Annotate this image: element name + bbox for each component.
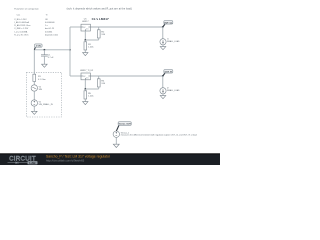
svg-text:http://circuitlab.com/c/9wtrh6: http://circuitlab.com/c/9wtrh65 [46, 158, 85, 162]
op-amp U2 LM317 TI box [81, 73, 90, 80]
wire V2 to V1 [33, 91, 35, 100]
node ADJ junction [84, 39, 86, 41]
voltage source V1 (DC) [31, 100, 37, 106]
svg-text:0.1 Ohm: 0.1 Ohm [38, 79, 46, 81]
svg-text:I_ADJ 0.0465uA: I_ADJ 0.0465uA [14, 21, 30, 24]
node C1 junction [44, 49, 46, 51]
node tag VIN [34, 44, 42, 50]
ground (I1) [162, 45, 164, 47]
svg-text:SMALL_LOAD: SMALL_LOAD [167, 40, 180, 43]
wire U2 output rail [90, 75, 162, 77]
svg-text:SMALL_LOAD: SMALL_LOAD [167, 89, 180, 92]
wire to current source I2 [162, 76, 164, 88]
svg-text:(sch: it depends which values: (sch: it depends which values and R_pot … [67, 8, 132, 11]
ground (C1) [42, 64, 48, 67]
node junction load 1 [162, 26, 164, 28]
svg-text:Parameter set comparison: Parameter set comparison [14, 8, 39, 11]
wire VIN rail [34, 49, 70, 51]
resistor R3 (source impedance) [33, 74, 36, 85]
wire U1 output rail [90, 26, 162, 28]
svg-text:R_ADJ 1181 Ohm: R_ADJ 1181 Ohm [14, 24, 30, 27]
svg-text:CL's LM317: CL's LM317 [92, 17, 109, 21]
resistor R1 (ADJ to ground) [84, 40, 87, 53]
svg-text:0.00334: 0.00334 [45, 31, 53, 33]
wire VIN down to source chain [33, 50, 35, 74]
svg-text:CLs: CLs [17, 15, 21, 17]
wire to current source I1 [162, 27, 164, 39]
svg-text:V_REF = 1.25V: V_REF = 1.25V [14, 28, 29, 30]
ground (I2) [162, 94, 164, 96]
svg-text:V_BG +1.24V: V_BG +1.24V [14, 19, 27, 21]
node tag OUT_TI [163, 70, 173, 76]
voltage source V2 (AC) [31, 85, 37, 91]
svg-text:1 u: 1 u [45, 25, 48, 27]
svg-text:1.24k: 1.24k [88, 47, 94, 49]
current source I2 [160, 88, 166, 94]
resistor R2 (output to ADJ) [97, 27, 100, 40]
node VIN junction [69, 49, 71, 51]
op-amp U1 LM317 box [81, 24, 90, 31]
svg-text:4.7 uF: 4.7 uF [48, 57, 54, 59]
voltage source Vmeas [113, 131, 119, 137]
svg-text:LM317_TI_U2: LM317_TI_U2 [80, 70, 94, 72]
svg-text:LM317: LM317 [82, 21, 89, 23]
svg-text:OUT: OUT [83, 27, 86, 29]
node tag Vmeas [116, 122, 131, 131]
svg-text:V_IN: V_IN [36, 46, 41, 48]
svg-text:LAB: LAB [29, 161, 36, 165]
footer bar [0, 153, 220, 165]
resistor R4 (output to ADJ) [97, 76, 100, 89]
ground (Vmeas) [115, 137, 117, 144]
ground (V1) [33, 106, 35, 111]
current source I1 [160, 39, 166, 45]
wire input vertical [69, 27, 71, 76]
wire ADJ node U2 [84, 80, 86, 89]
wire ADJ node [84, 31, 86, 40]
ground (R5) [83, 102, 88, 105]
svg-text:I_Q = 0.0033A: I_Q = 0.0033A [14, 30, 28, 33]
node ADJ junction U2 [84, 88, 86, 90]
svg-text:dev'd 1.25: dev'd 1.25 [45, 28, 55, 30]
ground (R1) [83, 53, 88, 56]
annotation: parameter comparison table [14, 8, 59, 37]
svg-text:1.24k: 1.24k [88, 96, 94, 98]
svg-text:OUT_CL: OUT_CL [164, 22, 173, 24]
node junction load 2 [162, 75, 164, 77]
svg-text:depends 0.011: depends 0.011 [45, 34, 59, 36]
svg-text:VIN_SMALL_IN: VIN_SMALL_IN [39, 103, 54, 106]
svg-text:0.0000046: 0.0000046 [45, 22, 55, 24]
CircuitLab logo [8, 156, 38, 165]
svg-text:SIN: SIN [39, 89, 43, 91]
svg-text:Vmeas_OUT: Vmeas_OUT [119, 124, 132, 126]
svg-text:R_Q = 8.1 Ohm: R_Q = 8.1 Ohm [14, 34, 28, 36]
svg-text:measures the difference betwee: measures the difference between both reg… [121, 133, 197, 136]
svg-text:OUT_TI: OUT_TI [165, 71, 173, 73]
wire input rail to U2 [70, 75, 81, 77]
wire input rail to U1 [70, 26, 81, 28]
node tag OUT_CL [163, 21, 173, 27]
resistor R5 (ADJ to ground) [84, 89, 87, 102]
capacitor C1 [41, 50, 48, 64]
label U1 refdes [82, 19, 89, 23]
dashed annotation box [26, 72, 61, 117]
